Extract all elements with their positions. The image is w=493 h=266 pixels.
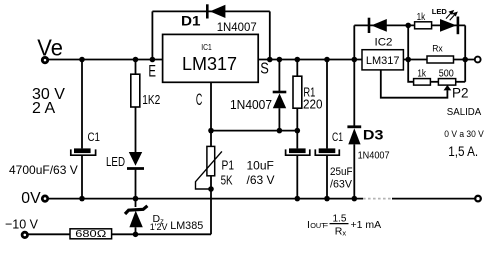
diode D3 xyxy=(347,127,361,145)
svg-text:/63 V: /63 V xyxy=(247,173,275,187)
node out-right rail xyxy=(462,57,468,63)
wire top row IC2 xyxy=(354,24,465,26)
wire D1 right leg xyxy=(269,11,271,59)
node adj-P1 xyxy=(208,128,214,134)
node adj-D2 xyxy=(277,128,283,134)
wire 1K2 to LED xyxy=(135,107,137,153)
svg-text:0 V a 30 V: 0 V a 30 V xyxy=(444,129,484,140)
svg-text:680Ω: 680Ω xyxy=(75,229,107,240)
svg-text:+1 mA: +1 mA xyxy=(351,219,382,231)
terminal Ve xyxy=(42,57,47,62)
svg-text:2 A: 2 A xyxy=(32,100,55,117)
node 0V-C1 xyxy=(79,196,85,202)
wire 0V rail faded xyxy=(363,198,392,200)
svg-text:LM317: LM317 xyxy=(366,55,400,67)
node IC2 out xyxy=(405,57,411,63)
wire C pin of IC1 down xyxy=(210,82,212,146)
wire diode D2 bottom xyxy=(278,108,280,130)
node D1-S xyxy=(267,57,273,63)
node 0V-25uF xyxy=(324,196,330,202)
svg-text:5K: 5K xyxy=(221,174,234,188)
wire 1K2 branch down xyxy=(135,60,137,75)
svg-text:LM385: LM385 xyxy=(170,220,203,232)
node 0V-LED-Dz xyxy=(133,196,139,202)
node adj-R1 xyxy=(295,128,301,134)
IC2 box xyxy=(362,50,403,70)
svg-text:C1: C1 xyxy=(332,130,343,144)
potentiometer P1 wiper xyxy=(196,151,222,189)
wire 0V rail left xyxy=(48,198,363,200)
svg-text:1k: 1k xyxy=(417,69,426,80)
wire D1 left leg xyxy=(151,11,153,59)
node Ve-D1 xyxy=(150,57,156,63)
svg-text:25uF: 25uF xyxy=(330,166,353,178)
wire zener bottom xyxy=(135,227,137,234)
resistor 1K2 xyxy=(131,74,140,107)
wire cap 10uF to 0V xyxy=(296,155,298,198)
terminal 0V xyxy=(42,196,47,201)
svg-text:C1: C1 xyxy=(88,132,101,144)
node diode/1k xyxy=(405,23,411,29)
svg-text:1N4007: 1N4007 xyxy=(217,20,257,34)
svg-text:IC2: IC2 xyxy=(375,37,393,49)
svg-text:10uF: 10uF xyxy=(247,159,274,173)
wire 25uF branch xyxy=(326,60,328,149)
svg-text:IC1: IC1 xyxy=(201,42,212,52)
svg-text:1,5 A.: 1,5 A. xyxy=(448,143,478,159)
svg-text:D1: D1 xyxy=(181,13,201,29)
wire D3 bottom xyxy=(353,144,355,198)
capacitor C1 4700uF xyxy=(71,148,96,155)
wire 500 to right rail xyxy=(456,81,466,83)
wire zener top xyxy=(135,199,137,207)
terminal output top xyxy=(475,57,481,63)
node S-D3 xyxy=(352,57,358,63)
svg-text:E: E xyxy=(148,62,156,80)
potentiometer 500 body xyxy=(438,79,455,86)
svg-text:4700uF/63 V: 4700uF/63 V xyxy=(9,163,78,177)
wire D1 top xyxy=(152,10,269,12)
svg-text:Ve: Ve xyxy=(37,34,63,60)
label Iout formula xyxy=(307,213,381,237)
wire left rail up to diode row xyxy=(353,25,355,59)
wire R1 to cap 10uF xyxy=(296,108,298,148)
svg-text:LED: LED xyxy=(106,155,125,169)
zener Dz LM385 xyxy=(125,206,147,228)
diode D1 xyxy=(207,4,225,18)
capacitor 10uF xyxy=(286,148,310,155)
node Ve-C1 xyxy=(79,57,85,63)
svg-text:S: S xyxy=(260,61,269,78)
resistor 1k bottom xyxy=(414,79,431,86)
svg-text:220: 220 xyxy=(303,97,323,112)
svg-text:0V: 0V xyxy=(21,190,41,207)
node 0V-10uF xyxy=(295,196,301,202)
wire IC2 output xyxy=(403,59,474,61)
IC1 box xyxy=(163,34,259,82)
resistor Rx xyxy=(427,56,454,63)
node S-D2 xyxy=(277,57,283,63)
node Ve-1K2 xyxy=(133,57,139,63)
svg-text:P1: P1 xyxy=(222,159,235,173)
svg-text:Rx: Rx xyxy=(432,43,443,54)
potentiometer P2 wiper arrow xyxy=(444,85,452,91)
svg-text:C: C xyxy=(196,91,202,109)
wire right rail xyxy=(464,25,466,81)
svg-text:1N4007: 1N4007 xyxy=(230,98,272,112)
wire -10V to 680 xyxy=(28,233,70,235)
wire D3 top xyxy=(353,60,355,126)
svg-text:D3: D3 xyxy=(363,126,384,142)
wire 0V rail right xyxy=(392,198,475,200)
potentiometer P1 body xyxy=(207,146,215,175)
node -10V-Dz xyxy=(133,232,139,238)
wire output of IC1 xyxy=(258,59,362,61)
diode across IC2 xyxy=(369,18,387,33)
resistor 680 ohm xyxy=(70,229,112,239)
wire R1 top xyxy=(296,60,298,77)
wire P1 bottom to -10V row xyxy=(210,176,212,235)
wire C1 to 0V rail xyxy=(81,155,83,198)
wire input rail Ve xyxy=(48,59,163,61)
node S-R1 xyxy=(295,57,301,63)
svg-text:1k: 1k xyxy=(417,12,426,23)
svg-text:=: = xyxy=(323,220,329,231)
LED output xyxy=(440,17,458,35)
svg-text:−10 V: −10 V xyxy=(5,216,38,231)
terminal -10V xyxy=(22,232,27,237)
wire 680 to P1 xyxy=(112,233,211,235)
node S-25uF xyxy=(324,57,330,63)
svg-text:1K2: 1K2 xyxy=(142,92,160,107)
wire adjust horizontal xyxy=(211,130,297,132)
wire 25uF to 0V xyxy=(326,155,328,198)
diode 1N4007 middle xyxy=(273,92,287,108)
svg-text:/63V: /63V xyxy=(330,179,352,191)
node P1 wiper join xyxy=(208,186,214,192)
capacitor C1 25uF xyxy=(315,148,339,155)
resistor 1k top xyxy=(415,22,432,29)
svg-text:LM317: LM317 xyxy=(182,54,237,74)
wire 1k to 500 xyxy=(430,81,438,83)
resistor R1 xyxy=(293,76,302,108)
wire C1 branch down xyxy=(81,60,83,149)
wire P2 wiper to IC2 adj xyxy=(381,70,448,98)
svg-text:1N4007: 1N4007 xyxy=(358,151,390,162)
svg-text:LED: LED xyxy=(432,7,448,16)
svg-text:500: 500 xyxy=(439,69,454,80)
wire diode D2 top xyxy=(278,60,280,92)
svg-text:1'2V: 1'2V xyxy=(150,222,168,232)
svg-text:SALIDA: SALIDA xyxy=(447,107,482,118)
node 0V-D3 xyxy=(352,196,358,202)
wire mid rail xyxy=(408,25,413,81)
wire LED to 0V rail xyxy=(135,170,137,199)
svg-text:P2: P2 xyxy=(452,86,469,101)
svg-text:1.5: 1.5 xyxy=(333,213,347,224)
LED indicator left xyxy=(127,152,144,169)
terminal output bottom xyxy=(475,196,481,202)
